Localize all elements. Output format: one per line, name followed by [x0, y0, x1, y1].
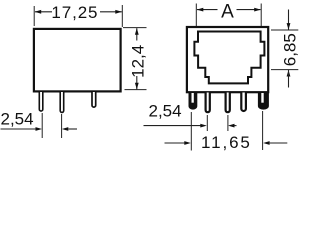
dimension 11,65 extension line right — [262, 111, 264, 150]
dimension A line right segment — [237, 9, 261, 11]
dimension 2,54 front arrow left-pointing — [228, 124, 235, 128]
pin post 5 (front view, right) — [258, 93, 269, 110]
svg-text:17,25: 17,25 — [51, 3, 98, 22]
dimension 6,85 arrow down-pointing — [287, 23, 291, 30]
dimension 6,85 line top segment — [288, 10, 290, 30]
dimension 6,85 extension line bottom — [271, 69, 298, 71]
dimension 11,65 extension line left — [190, 112, 192, 151]
dimension 2,54 extension line at pin1 — [41, 113, 43, 138]
pin 2 (side view) — [60, 92, 64, 112]
dimension A arrow left — [197, 8, 204, 12]
dimension 11,65 arrow right-pointing — [184, 141, 191, 145]
dimension 17,25 line right segment — [100, 11, 122, 13]
dimension 12,4 line bottom segment — [136, 76, 138, 89]
pin 4 (front view) — [241, 93, 246, 112]
dimension 2,54 line left tail — [1, 128, 37, 130]
dimension 2,54 right tail — [68, 128, 77, 130]
dimension 12,4 line top segment — [136, 28, 138, 40]
pin post 5 slit — [261, 93, 263, 103]
dimension 17,25 arrow left — [35, 10, 42, 14]
svg-text:12,4: 12,4 — [128, 45, 147, 78]
pin 3 (front view) — [226, 93, 230, 113]
dimension A arrow right — [254, 8, 261, 12]
dimension A extension line left — [195, 4, 197, 27]
dimension 17,25 arrow right — [115, 10, 122, 14]
dimension 12,4 extension line top — [123, 27, 147, 29]
jack opening — [194, 32, 264, 84]
dimension A extension line right — [260, 4, 262, 27]
dimension 6,85 extension line top — [271, 29, 298, 31]
dimension 2,54 front right tail — [235, 125, 237, 127]
connector body (front view) — [187, 27, 268, 92]
dimension 2,54 front arrow right-pointing — [200, 124, 207, 128]
pin post 1 (front view, left) — [189, 93, 198, 110]
svg-text:A: A — [221, 2, 234, 23]
dimension 11,65 arrow left-pointing — [263, 141, 270, 145]
svg-text:11,65: 11,65 — [201, 133, 252, 152]
dimension 12,4 arrow down — [135, 83, 139, 90]
dimension 17,25 line left segment — [35, 11, 52, 13]
dimension 2,54 front extension line at pin2 — [206, 115, 208, 131]
dimension 6,85 line bottom segment — [288, 70, 290, 88]
dimension A line left segment — [197, 9, 218, 11]
pin 2 (front view) — [206, 93, 210, 113]
svg-text:6,85: 6,85 — [281, 33, 300, 66]
svg-text:2,54: 2,54 — [149, 101, 182, 120]
dimension 2,54 front extension line at pin3 — [227, 115, 229, 131]
dimension 12,4 arrow up — [135, 28, 139, 35]
dimension 6,85 arrow up-pointing — [287, 70, 291, 77]
dimension 12,4 extension line bottom — [125, 89, 147, 91]
dimension 17,25 extension line right — [121, 5, 123, 27]
pin 3 (side view) — [92, 92, 96, 107]
dimension 11,65 left tail — [165, 142, 185, 144]
dimension 2,54 front line left tail — [144, 125, 202, 127]
svg-text:2,54: 2,54 — [1, 110, 34, 129]
dimension 17,25 extension line left — [33, 6, 35, 26]
pin post 1 slit — [192, 93, 194, 103]
dimension 2,54 arrow left-pointing — [62, 127, 69, 131]
connector body (side view) — [34, 29, 121, 92]
dimension 2,54 extension line at pin2 — [61, 114, 63, 138]
dimension 11,65 right tail — [270, 142, 288, 144]
dimension 2,54 arrow right-pointing — [36, 127, 43, 131]
pin 1 (side view) — [39, 92, 43, 111]
